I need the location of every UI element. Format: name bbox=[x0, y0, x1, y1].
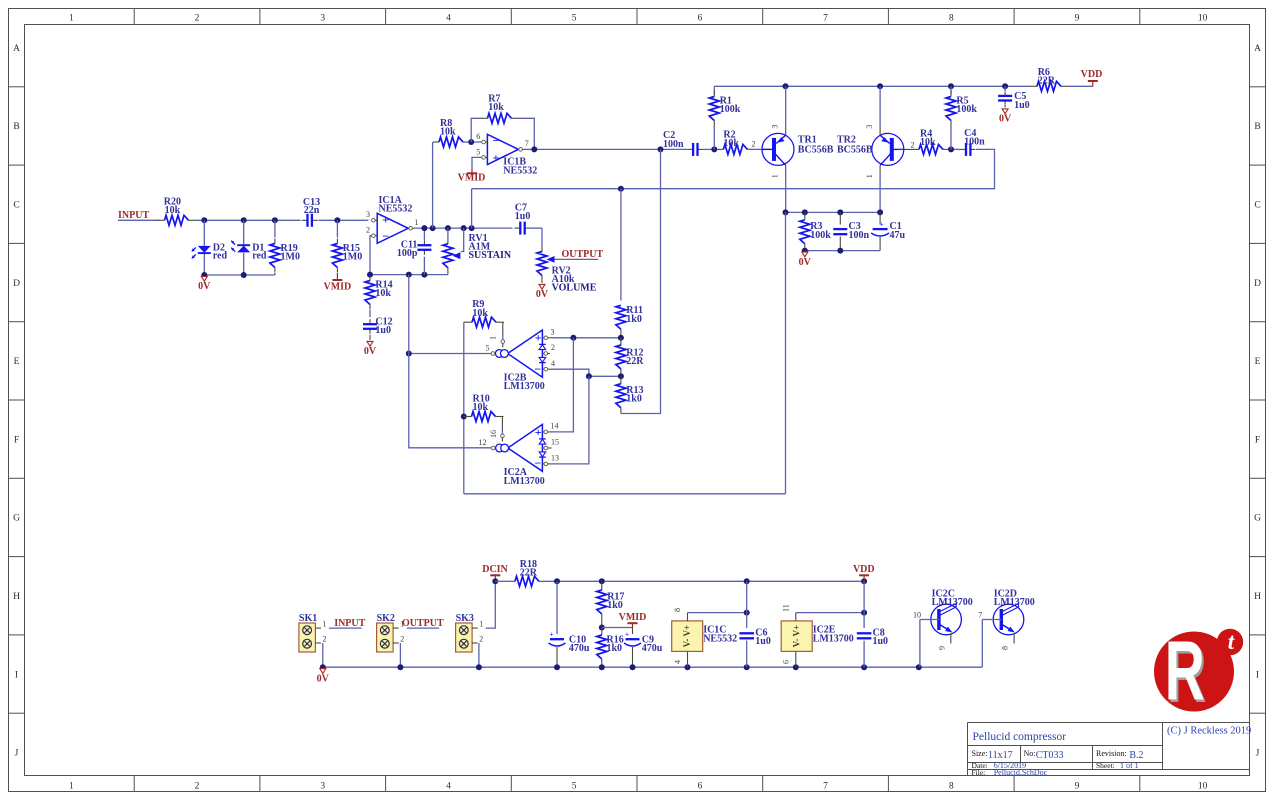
svg-text:+: + bbox=[880, 220, 884, 228]
svg-text:C: C bbox=[13, 200, 19, 210]
capacitor C8 bbox=[857, 581, 888, 667]
svg-text:100k: 100k bbox=[720, 104, 741, 115]
svg-text:1 of 1: 1 of 1 bbox=[1120, 761, 1139, 770]
svg-text:+: + bbox=[535, 330, 542, 344]
wire bbox=[796, 610, 867, 616]
svg-text:−: − bbox=[534, 362, 541, 376]
svg-text:t: t bbox=[1228, 629, 1235, 654]
svg-text:I: I bbox=[1256, 670, 1259, 680]
junction bbox=[492, 578, 498, 584]
svg-text:1k0: 1k0 bbox=[626, 314, 642, 325]
svg-text:NE5532: NE5532 bbox=[503, 165, 537, 176]
capacitor C7 bbox=[514, 203, 530, 235]
svg-text:4: 4 bbox=[551, 359, 555, 368]
capacitor C11 bbox=[397, 228, 432, 275]
wire bbox=[464, 139, 483, 145]
svg-text:3: 3 bbox=[551, 328, 555, 337]
svg-text:0V: 0V bbox=[364, 346, 377, 357]
svg-text:V- V+: V- V+ bbox=[682, 625, 692, 648]
svg-text:14: 14 bbox=[551, 422, 559, 431]
wire bbox=[472, 157, 482, 169]
svg-text:6: 6 bbox=[781, 660, 790, 664]
capacitor C2 bbox=[663, 130, 704, 156]
ground 0V bbox=[536, 284, 549, 300]
svg-text:2: 2 bbox=[366, 226, 370, 235]
svg-text:2: 2 bbox=[195, 782, 200, 792]
svg-text:10: 10 bbox=[913, 611, 921, 620]
wire bbox=[118, 219, 159, 221]
wire bbox=[621, 149, 661, 413]
junction bbox=[618, 335, 624, 341]
transistor TR1 bbox=[762, 86, 834, 212]
wire bbox=[531, 146, 687, 152]
svg-text:LM13700: LM13700 bbox=[994, 597, 1035, 608]
svg-text:22R: 22R bbox=[626, 356, 644, 367]
resistor R13 bbox=[616, 376, 644, 413]
svg-text:10k: 10k bbox=[440, 127, 456, 138]
svg-text:2: 2 bbox=[752, 139, 756, 148]
svg-text:3: 3 bbox=[771, 125, 780, 129]
svg-text:8: 8 bbox=[673, 608, 682, 612]
svg-text:1u0: 1u0 bbox=[375, 325, 391, 336]
svg-text:1: 1 bbox=[771, 174, 780, 178]
junction bbox=[618, 186, 624, 192]
svg-text:100k: 100k bbox=[956, 104, 977, 115]
op-amp IC1B bbox=[476, 132, 537, 176]
junction bbox=[618, 373, 624, 379]
wire bbox=[711, 146, 770, 152]
resistor R18 bbox=[511, 559, 543, 586]
wire bbox=[408, 275, 410, 354]
svg-text:SK2: SK2 bbox=[377, 613, 395, 624]
capacitor C6 bbox=[739, 581, 770, 667]
svg-text:H: H bbox=[13, 592, 20, 602]
diode D2 bbox=[192, 220, 228, 275]
capacitor C10 bbox=[549, 581, 590, 667]
svg-text:16: 16 bbox=[489, 430, 498, 438]
svg-text:7: 7 bbox=[978, 611, 982, 620]
pin 1 of IC2B bbox=[488, 336, 504, 347]
svg-text:C: C bbox=[1254, 200, 1260, 210]
wire bbox=[432, 142, 434, 228]
svg-text:F: F bbox=[14, 435, 19, 445]
svg-text:11: 11 bbox=[781, 604, 790, 612]
diode D1 bbox=[231, 220, 267, 275]
connector SK1 bbox=[299, 613, 327, 652]
resistor R11 bbox=[616, 189, 643, 338]
svg-text:VDD: VDD bbox=[1081, 69, 1103, 80]
resistor R8 bbox=[433, 118, 469, 147]
svg-text:+: + bbox=[492, 150, 499, 164]
resistor R15 bbox=[332, 220, 362, 272]
svg-text:J: J bbox=[1256, 749, 1260, 759]
wire bbox=[329, 627, 362, 629]
svg-text:2: 2 bbox=[551, 343, 555, 352]
title text bbox=[972, 726, 1252, 778]
wire bbox=[1068, 85, 1093, 87]
svg-text:OUTPUT: OUTPUT bbox=[402, 618, 444, 629]
junction bbox=[599, 625, 605, 631]
svg-text:7: 7 bbox=[525, 139, 529, 148]
resistor R3 bbox=[800, 212, 831, 250]
svg-text:1u0: 1u0 bbox=[1014, 100, 1030, 111]
svg-text:+: + bbox=[550, 631, 554, 639]
svg-text:B.2: B.2 bbox=[1129, 750, 1143, 761]
svg-text:LM13700: LM13700 bbox=[932, 597, 973, 608]
svg-text:+: + bbox=[535, 425, 542, 439]
svg-text:H: H bbox=[1254, 592, 1261, 602]
resistor R9 bbox=[464, 299, 504, 339]
svg-text:E: E bbox=[1255, 357, 1261, 367]
svg-text:0V: 0V bbox=[799, 257, 812, 268]
svg-text:Pellucid compressor: Pellucid compressor bbox=[973, 731, 1067, 743]
svg-text:INPUT: INPUT bbox=[334, 618, 365, 629]
resistor R19 bbox=[270, 220, 300, 275]
svg-text:B: B bbox=[13, 122, 19, 132]
svg-text:No:: No: bbox=[1024, 749, 1036, 758]
wire bbox=[898, 148, 916, 150]
svg-text:2: 2 bbox=[479, 634, 483, 643]
svg-text:−: − bbox=[534, 456, 541, 470]
svg-text:5: 5 bbox=[572, 14, 577, 24]
wire bbox=[981, 620, 983, 668]
svg-text:8: 8 bbox=[949, 782, 954, 792]
capacitor C5 bbox=[998, 86, 1030, 111]
resistor R6 bbox=[1030, 67, 1068, 91]
svg-text:9: 9 bbox=[937, 646, 946, 650]
svg-text:7: 7 bbox=[823, 782, 828, 792]
svg-text:LM13700: LM13700 bbox=[504, 381, 545, 392]
svg-text:470u: 470u bbox=[569, 643, 590, 654]
svg-text:10: 10 bbox=[1198, 14, 1208, 24]
svg-text:47u: 47u bbox=[890, 230, 906, 241]
svg-text:3: 3 bbox=[366, 210, 370, 219]
ground 0V bbox=[799, 252, 812, 268]
svg-text:5: 5 bbox=[572, 782, 577, 792]
resistor R14 bbox=[365, 276, 393, 318]
wire bbox=[370, 236, 371, 275]
wire bbox=[409, 354, 491, 448]
svg-text:10k: 10k bbox=[473, 402, 489, 413]
power port VDD bbox=[853, 564, 875, 581]
svg-text:J: J bbox=[15, 749, 19, 759]
svg-text:D: D bbox=[13, 279, 20, 289]
wire bbox=[367, 272, 448, 278]
wire bbox=[785, 212, 787, 493]
svg-text:red: red bbox=[213, 251, 228, 262]
svg-text:OUTPUT: OUTPUT bbox=[562, 249, 604, 260]
connector SK2 bbox=[377, 613, 405, 652]
svg-text:6: 6 bbox=[697, 14, 702, 24]
capacitor C3 bbox=[833, 212, 869, 250]
power port VMID bbox=[619, 612, 647, 627]
ground 0V bbox=[198, 276, 211, 292]
wire bbox=[688, 610, 750, 616]
wire bbox=[543, 578, 867, 584]
title block bbox=[968, 723, 1250, 776]
wire bbox=[464, 493, 786, 495]
connector SK3 bbox=[456, 613, 484, 652]
wire bbox=[472, 149, 995, 188]
svg-text:5: 5 bbox=[486, 343, 490, 352]
svg-text:470u: 470u bbox=[642, 643, 663, 654]
svg-text:8: 8 bbox=[1001, 646, 1010, 650]
svg-text:CT033: CT033 bbox=[1036, 750, 1064, 761]
resistor R12 bbox=[616, 338, 644, 377]
svg-text:B: B bbox=[1254, 122, 1260, 132]
wire bbox=[196, 217, 301, 223]
svg-text:(C) J Reckless 2019: (C) J Reckless 2019 bbox=[1167, 726, 1251, 737]
capacitor C9 bbox=[624, 628, 663, 668]
net label INPUT bbox=[118, 210, 149, 221]
wire bbox=[529, 227, 542, 229]
svg-text:10k: 10k bbox=[375, 288, 391, 299]
svg-text:SK3: SK3 bbox=[456, 613, 474, 624]
svg-text:22R: 22R bbox=[520, 567, 538, 578]
svg-text:V- V+: V- V+ bbox=[792, 625, 802, 648]
svg-text:10k: 10k bbox=[472, 308, 488, 319]
svg-text:G: G bbox=[1254, 514, 1261, 524]
wire bbox=[554, 338, 573, 432]
svg-text:1M0: 1M0 bbox=[343, 252, 362, 263]
svg-text:A: A bbox=[1254, 44, 1261, 54]
svg-text:+: + bbox=[382, 213, 389, 227]
ground 0V bbox=[999, 105, 1012, 125]
wire bbox=[802, 248, 880, 254]
power port VMID bbox=[458, 169, 486, 183]
wire bbox=[947, 146, 961, 152]
wire bbox=[554, 376, 589, 464]
wire bbox=[704, 148, 712, 150]
svg-text:12: 12 bbox=[479, 438, 487, 447]
svg-text:8: 8 bbox=[949, 14, 954, 24]
svg-text:13: 13 bbox=[551, 453, 559, 462]
capacitor C13 bbox=[302, 197, 321, 227]
svg-text:red: red bbox=[252, 251, 267, 262]
wire bbox=[461, 322, 467, 494]
svg-text:1u0: 1u0 bbox=[755, 636, 771, 647]
op-amp OTA IC2A bbox=[479, 422, 560, 487]
wire bbox=[407, 627, 440, 629]
resistor R16 bbox=[597, 628, 624, 668]
power part IC2E bbox=[781, 604, 854, 667]
resistor R7 bbox=[471, 94, 534, 150]
svg-text:15: 15 bbox=[551, 438, 559, 447]
svg-text:10k: 10k bbox=[488, 102, 504, 113]
svg-text:2: 2 bbox=[400, 634, 404, 643]
power port DCIN bbox=[482, 564, 508, 581]
svg-text:22n: 22n bbox=[304, 205, 320, 216]
svg-text:1u0: 1u0 bbox=[873, 636, 889, 647]
svg-text:Size:: Size: bbox=[972, 749, 988, 758]
wire bbox=[783, 209, 884, 215]
net label INPUT bbox=[334, 618, 365, 629]
svg-text:BC556B: BC556B bbox=[837, 144, 873, 155]
wire bbox=[586, 373, 621, 379]
svg-text:1M0: 1M0 bbox=[281, 252, 300, 263]
svg-text:10k: 10k bbox=[920, 137, 936, 148]
wire VDD rail bbox=[714, 83, 1030, 89]
svg-text:1k0: 1k0 bbox=[626, 393, 642, 404]
svg-text:A: A bbox=[13, 44, 20, 54]
svg-text:5: 5 bbox=[476, 148, 480, 157]
resistor R20 bbox=[158, 196, 196, 225]
wire bbox=[554, 335, 621, 341]
resistor R17 bbox=[597, 581, 625, 627]
ground 0V bbox=[364, 335, 377, 357]
svg-text:R: R bbox=[1165, 625, 1205, 718]
svg-text:1u0: 1u0 bbox=[515, 211, 531, 222]
svg-text:1: 1 bbox=[69, 14, 74, 24]
wire bbox=[555, 258, 599, 260]
ground 0V bbox=[317, 669, 330, 685]
svg-text:VMID: VMID bbox=[619, 612, 647, 623]
net label OUTPUT bbox=[562, 249, 604, 260]
capacitor C4 bbox=[961, 128, 985, 156]
power port VMID bbox=[324, 273, 352, 292]
svg-text:6: 6 bbox=[476, 132, 480, 141]
svg-text:4: 4 bbox=[446, 14, 451, 24]
svg-text:+: + bbox=[625, 631, 629, 639]
svg-text:NE5532: NE5532 bbox=[379, 203, 413, 214]
svg-text:11x17: 11x17 bbox=[988, 750, 1013, 761]
svg-text:1k0: 1k0 bbox=[607, 643, 623, 654]
wire bbox=[478, 643, 480, 667]
svg-text:G: G bbox=[13, 514, 20, 524]
svg-text:3: 3 bbox=[320, 782, 325, 792]
resistor R10 bbox=[464, 394, 504, 434]
svg-text:9: 9 bbox=[1075, 14, 1080, 24]
svg-text:100n: 100n bbox=[964, 136, 985, 147]
svg-text:100k: 100k bbox=[810, 230, 831, 241]
svg-text:−: − bbox=[382, 229, 389, 243]
svg-text:F: F bbox=[1255, 435, 1260, 445]
op-amp IC1A bbox=[366, 195, 419, 244]
svg-text:0V: 0V bbox=[536, 289, 549, 300]
svg-text:1: 1 bbox=[415, 218, 419, 227]
svg-text:3: 3 bbox=[320, 14, 325, 24]
svg-text:Sheet:: Sheet: bbox=[1096, 761, 1115, 770]
svg-text:0V: 0V bbox=[999, 114, 1012, 125]
svg-text:100n: 100n bbox=[663, 139, 684, 150]
svg-text:1k0: 1k0 bbox=[607, 600, 623, 611]
wire bbox=[471, 189, 473, 228]
net label OUTPUT bbox=[402, 618, 444, 629]
svg-text:1: 1 bbox=[865, 174, 874, 178]
svg-text:1: 1 bbox=[323, 620, 327, 629]
svg-text:2: 2 bbox=[323, 634, 327, 643]
svg-text:100p: 100p bbox=[397, 248, 418, 259]
capacitor C12 bbox=[363, 316, 393, 336]
op-amp OTA IC2B bbox=[486, 328, 556, 393]
svg-text:BC556B: BC556B bbox=[798, 144, 834, 155]
svg-text:VOLUME: VOLUME bbox=[552, 283, 597, 294]
svg-text:Pellucid.SchDoc: Pellucid.SchDoc bbox=[994, 768, 1048, 777]
svg-text:D: D bbox=[1254, 279, 1261, 289]
svg-text:File:: File: bbox=[972, 768, 986, 777]
wire bbox=[201, 272, 275, 278]
transistor IC2D bbox=[978, 589, 1035, 651]
svg-text:4: 4 bbox=[446, 782, 451, 792]
svg-text:LM13700: LM13700 bbox=[504, 476, 545, 487]
resistor R4 bbox=[915, 129, 947, 155]
wire bbox=[554, 369, 589, 376]
svg-text:VMID: VMID bbox=[324, 281, 352, 292]
svg-text:100n: 100n bbox=[849, 230, 870, 241]
wire bbox=[406, 351, 491, 357]
resistor R1 bbox=[709, 86, 740, 149]
wire bbox=[322, 643, 324, 667]
wire bbox=[486, 581, 496, 628]
wire bbox=[399, 643, 401, 667]
svg-text:10k: 10k bbox=[723, 138, 739, 149]
svg-text:10: 10 bbox=[1198, 782, 1208, 792]
resistor R2 bbox=[717, 130, 753, 155]
svg-text:I: I bbox=[15, 670, 18, 680]
svg-text:2: 2 bbox=[195, 14, 200, 24]
wire bbox=[602, 627, 633, 629]
svg-text:NE5532: NE5532 bbox=[703, 633, 737, 644]
svg-text:10k: 10k bbox=[165, 205, 181, 216]
svg-text:E: E bbox=[14, 357, 20, 367]
svg-text:INPUT: INPUT bbox=[118, 210, 149, 221]
svg-text:1: 1 bbox=[479, 620, 483, 629]
svg-text:VDD: VDD bbox=[853, 564, 875, 575]
pin 16 of IC2A bbox=[489, 430, 504, 442]
svg-text:9: 9 bbox=[1075, 782, 1080, 792]
svg-text:LM13700: LM13700 bbox=[813, 633, 854, 644]
svg-text:3: 3 bbox=[865, 125, 874, 129]
svg-text:DCIN: DCIN bbox=[482, 564, 508, 575]
svg-text:1: 1 bbox=[488, 336, 497, 340]
potentiometer RV1 SUSTAIN bbox=[443, 228, 512, 275]
svg-text:0V: 0V bbox=[198, 281, 211, 292]
svg-text:2: 2 bbox=[911, 140, 915, 149]
wire bbox=[414, 225, 513, 231]
resistor R5 bbox=[946, 86, 977, 149]
wire 0V rail bbox=[320, 664, 983, 670]
svg-text:1: 1 bbox=[69, 782, 74, 792]
transistor IC2C bbox=[913, 589, 973, 668]
potentiometer RV2 VOLUME bbox=[537, 228, 597, 294]
svg-text:Revision:: Revision: bbox=[1096, 749, 1127, 758]
power port VDD bbox=[1081, 69, 1103, 86]
svg-text:7: 7 bbox=[823, 14, 828, 24]
wire bbox=[495, 580, 511, 582]
svg-text:VMID: VMID bbox=[458, 172, 486, 183]
svg-text:SUSTAIN: SUSTAIN bbox=[469, 250, 512, 261]
svg-text:0V: 0V bbox=[317, 673, 330, 684]
power part IC1C bbox=[672, 608, 737, 667]
transistor TR2 bbox=[837, 86, 904, 212]
svg-text:6: 6 bbox=[697, 782, 702, 792]
svg-text:4: 4 bbox=[673, 660, 682, 664]
wire bbox=[319, 217, 369, 223]
svg-text:−: − bbox=[492, 134, 499, 148]
capacitor C1 bbox=[871, 212, 905, 250]
logo Rt bbox=[1154, 625, 1243, 721]
svg-text:SK1: SK1 bbox=[299, 613, 317, 624]
svg-text:22R: 22R bbox=[1038, 75, 1056, 86]
